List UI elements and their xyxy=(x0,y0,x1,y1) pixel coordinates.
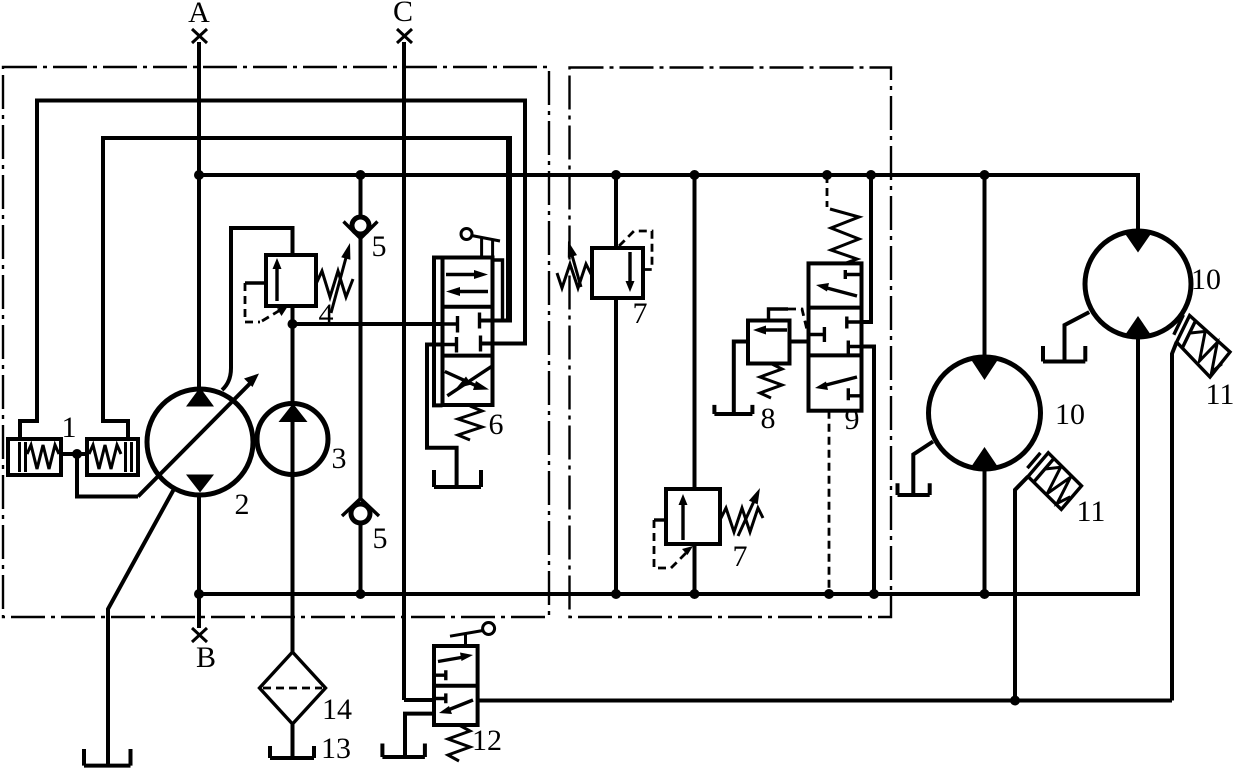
check valve 5 bottom xyxy=(342,499,379,524)
wire motor left feed xyxy=(983,175,987,357)
valve 7a spring xyxy=(557,264,592,288)
node dot cv5/return xyxy=(356,589,366,599)
port B cross mark xyxy=(192,628,207,642)
wire pump 2 case drain xyxy=(108,489,174,766)
label 5 bottom xyxy=(373,522,388,555)
label 10 left xyxy=(1055,398,1085,431)
valve 7a body xyxy=(592,248,643,298)
valve 6 bottom block crossed arrows xyxy=(445,366,492,395)
svg-text:1: 1 xyxy=(62,411,77,444)
svg-text:5: 5 xyxy=(373,522,388,555)
wire line A vertical xyxy=(197,42,201,628)
wire actuator control to pump swash xyxy=(77,454,138,497)
valve 12 tank symbol xyxy=(382,744,425,758)
wire valve 8 to tank xyxy=(734,342,748,414)
node dot 7b/return xyxy=(690,589,700,599)
svg-text:7: 7 xyxy=(633,297,648,330)
valve 9 pilot spring top xyxy=(827,175,859,263)
svg-text:C: C xyxy=(393,0,413,28)
wire valve 8 to valve 9 xyxy=(790,340,809,344)
enclosure box middle (dash-dot) xyxy=(570,68,892,618)
svg-text:12: 12 xyxy=(472,724,502,757)
label 10 right xyxy=(1191,263,1221,296)
enclosure box left (dash-dot) xyxy=(3,67,549,617)
node dot actuator link xyxy=(72,449,82,459)
label 6 xyxy=(489,408,504,441)
label 2 xyxy=(235,488,250,521)
svg-text:11: 11 xyxy=(1077,495,1106,528)
wire brake pilot line xyxy=(478,699,1172,703)
valve 9 bottom block arrow xyxy=(815,377,862,400)
check valve 5 top xyxy=(344,175,378,594)
wire return line bottom xyxy=(199,337,1138,594)
label 9 xyxy=(845,403,860,436)
valve 8 spring xyxy=(760,364,782,399)
motor 10 right bottom triangle (up) xyxy=(1124,316,1152,337)
svg-text:10: 10 xyxy=(1055,398,1085,431)
label 5 top xyxy=(372,230,387,263)
pump 2 inlet triangle (down) xyxy=(186,475,214,493)
node dot 9 drain/return xyxy=(824,589,834,599)
pump 2 circle xyxy=(147,389,253,495)
label 13 xyxy=(321,732,351,765)
valve 6 riser to loop B xyxy=(506,138,510,321)
valve 8 pilot to valve 9 (dashed) xyxy=(769,309,809,336)
valve 6 T port to tank xyxy=(427,345,457,487)
valve 4 adjust arrow xyxy=(331,243,350,313)
valve 6 spring xyxy=(458,406,482,440)
label 11 left xyxy=(1077,495,1106,528)
svg-text:9: 9 xyxy=(845,403,860,436)
wire brake valve 11 right to pilot line xyxy=(1172,342,1177,700)
valve 7a pilot (dashed) xyxy=(619,231,652,270)
node dot A/main xyxy=(194,170,204,180)
valve 6 right rail xyxy=(493,260,503,321)
wire brake valve 11 left to pilot line xyxy=(1015,477,1028,701)
valve 6 centre block blocked ports xyxy=(443,313,493,353)
valve 8 body xyxy=(748,321,790,364)
motor 10 left bottom triangle (up) xyxy=(970,447,999,469)
valve 9 bottom drain (dashed) xyxy=(828,411,831,594)
brake valve 11 left body xyxy=(1028,453,1082,510)
valve 7b pilot (dashed) xyxy=(654,520,693,568)
svg-text:11: 11 xyxy=(1206,378,1235,411)
motor 10 left case drain xyxy=(913,442,933,495)
wire pilot loop A (outer) xyxy=(20,101,525,440)
motor 10 right top triangle (down) xyxy=(1124,232,1153,253)
valve 8 internal arrow left xyxy=(753,326,787,335)
svg-text:10: 10 xyxy=(1191,263,1221,296)
valve 12 spring xyxy=(448,725,470,761)
valve 4 pilot line (dashed) xyxy=(245,283,288,322)
node dot valve 9 pilot branch xyxy=(822,170,832,180)
wire riser valve 7b xyxy=(693,175,697,594)
wire line C vertical xyxy=(404,42,434,700)
valve 4 internal arrow up xyxy=(273,258,282,301)
valve 12 body xyxy=(434,646,478,725)
motor 10 left top triangle (down) xyxy=(970,358,999,380)
valve 4 body xyxy=(266,255,316,306)
label 7b xyxy=(733,540,748,573)
valve 12 bottom block arrow xyxy=(434,693,473,714)
svg-text:A: A xyxy=(188,0,210,29)
wire valve 4 top to pump 2 control xyxy=(222,228,293,390)
motor 10 left circle xyxy=(929,357,1041,469)
pump 3 circle xyxy=(257,404,328,475)
label 11 right xyxy=(1206,378,1235,411)
svg-text:6: 6 xyxy=(489,408,504,441)
port A cross mark xyxy=(192,29,207,43)
wire valve 4 bottom to junction xyxy=(291,306,295,324)
svg-text:4: 4 xyxy=(319,298,334,331)
label 3 xyxy=(332,442,347,475)
wire pump 3 outlet up / inlet down xyxy=(291,324,295,652)
wire motor left return xyxy=(983,469,987,594)
brake valve 11 right bars xyxy=(1174,315,1196,348)
brake valve 11 left bars xyxy=(1027,453,1054,482)
tank 13 xyxy=(270,746,314,758)
valve 9 right wire from main xyxy=(862,175,872,322)
label 8 xyxy=(761,402,776,435)
valve 9 lower right port wire xyxy=(862,347,875,595)
valve 9 centre block blocked ports xyxy=(809,317,862,355)
wire junction to valve 6 P port xyxy=(293,322,443,326)
solenoid actuator 1 box left xyxy=(8,439,61,475)
port C cross mark xyxy=(397,29,412,43)
valve 6 left rail xyxy=(434,258,443,406)
node dot motor left branch xyxy=(980,170,990,180)
label 7a xyxy=(633,297,648,330)
motor left tank symbol xyxy=(898,483,930,495)
node dot motor left/return xyxy=(980,589,990,599)
valve 6 lever xyxy=(461,229,500,258)
wire link between actuator halves xyxy=(61,452,87,456)
wire main pressure line top xyxy=(199,175,1138,231)
valve 6 tank symbol xyxy=(434,470,481,487)
filter 14 diamond xyxy=(260,652,326,724)
node dot B/return xyxy=(194,589,204,599)
svg-text:14: 14 xyxy=(322,693,352,726)
tank symbol bottom left xyxy=(84,749,131,766)
valve 6 top block arrows xyxy=(446,270,488,296)
pump 3 outlet triangle (up) xyxy=(279,404,308,423)
port B label xyxy=(196,641,216,674)
svg-text:8: 8 xyxy=(761,402,776,435)
node dot pump3/valve4/valve6 xyxy=(288,319,298,329)
svg-text:5: 5 xyxy=(372,230,387,263)
valve 7a adjust arrow xyxy=(568,241,581,287)
label 1 xyxy=(62,411,77,444)
label 4 xyxy=(319,298,334,331)
node dot valve 7a branch xyxy=(611,170,621,180)
valve 7b body xyxy=(666,489,720,544)
label 12 xyxy=(472,724,502,757)
svg-text:2: 2 xyxy=(235,488,250,521)
label 14 xyxy=(322,693,352,726)
port A label xyxy=(188,0,210,29)
node dot 7a/return xyxy=(611,589,621,599)
valve 8 tank symbol xyxy=(714,405,752,414)
valve 7b adjust arrow xyxy=(738,488,760,536)
valve 7a internal arrow down xyxy=(626,252,635,292)
wire valve 12 to tank xyxy=(405,714,434,755)
valve 12 lever xyxy=(450,623,495,647)
valve 9 top block arrow xyxy=(816,270,862,296)
valve 9 body xyxy=(809,263,862,410)
wire riser valve 7a xyxy=(614,175,618,594)
pump 2 outlet triangle (up) xyxy=(186,388,214,407)
solenoid actuator 1 box right xyxy=(87,439,138,475)
motor 10 right circle xyxy=(1085,231,1191,337)
svg-text:7: 7 xyxy=(733,540,748,573)
node dot check valve 5 branch xyxy=(356,170,366,180)
valve 7b spring xyxy=(720,508,763,532)
pump 2 variable arrow xyxy=(138,374,259,497)
wire pilot loop B (inner) xyxy=(103,138,510,439)
valve 6 riser to loop A xyxy=(524,342,526,346)
valve 7b internal arrow up xyxy=(679,494,688,540)
valve 12 top block arrow xyxy=(434,653,473,681)
node dot valve 7b branch xyxy=(690,170,700,180)
node dot 9 port/return xyxy=(869,589,879,599)
node dot brake line branch xyxy=(1010,696,1020,706)
motor right tank symbol xyxy=(1043,346,1085,362)
svg-text:13: 13 xyxy=(321,732,351,765)
port C label xyxy=(393,0,413,28)
svg-text:B: B xyxy=(196,641,216,674)
valve 6 body xyxy=(443,258,493,406)
brake valve 11 right body xyxy=(1177,316,1230,378)
node dot valve 9 right branch xyxy=(866,170,876,180)
motor 10 right case drain xyxy=(1065,312,1090,361)
svg-text:3: 3 xyxy=(332,442,347,475)
valve 4 spring xyxy=(316,271,353,297)
wire filter to tank 13 xyxy=(291,724,295,757)
